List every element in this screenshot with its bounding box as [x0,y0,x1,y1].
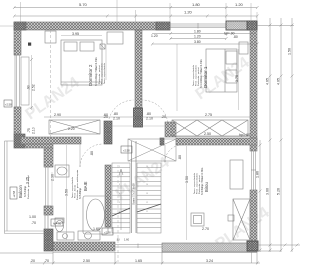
svg-text:16: 16 [146,166,148,168]
svg-text:.80: .80 [178,155,182,160]
svg-text:.70: .70 [44,259,49,263]
stairs arrow [119,169,123,230]
svg-text:Balcon: Balcon [18,185,23,198]
svg-text:+2.58: +2.58 [104,231,111,235]
svg-text:.80: .80 [146,112,151,116]
fixture washer [57,232,74,240]
svg-text:3.50: 3.50 [185,176,189,183]
window bottom (Baie) [115,244,162,249]
stairs stringer [132,141,137,233]
wall balcony step [25,141,53,148]
svg-text:4: 4 [119,193,120,195]
label Dormitor 1 [193,59,208,88]
svg-text:Tavan - vopsea lavabila: Tavan - vopsea lavabila [194,172,196,194]
furniture Birou crossed [228,199,250,240]
wall mid horizontal (Dormitor 2 / Baie) [21,121,112,144]
wall top-right block [226,21,257,30]
furniture D1 wardrobe [172,120,248,136]
svg-text:Tavan - vopsea lavabila: Tavan - vopsea lavabila [72,176,74,198]
window left (Dormitor 2) [14,55,29,107]
svg-text:1.80: 1.80 [194,30,201,34]
svg-text:1.20: 1.20 [151,34,158,38]
dim top row1 [13,6,259,9]
svg-text:Dormitor 1: Dormitor 1 [203,66,208,88]
section line B [117,165,119,262]
svg-text:12: 12 [146,202,148,204]
label Baie [72,169,88,200]
window top (Dormitor 1) [170,23,226,29]
dim D1 room [205,75,239,117]
svg-text:2.50: 2.50 [83,259,90,263]
svg-text:1.20: 1.20 [235,2,244,7]
dim D2 room [54,32,166,121]
stairs landing crossed [128,139,176,161]
svg-text:S=5.40mp: S=5.40mp [24,185,27,197]
svg-text:+2.58: +2.58 [5,103,12,107]
svg-text:5.26: 5.26 [277,188,281,195]
window left lower (Baie) [44,167,53,206]
label level outside [4,100,12,107]
dim right columns [257,18,300,252]
marker square D2 [28,43,31,46]
svg-text:3.24: 3.24 [206,259,213,263]
svg-text:Tavan - vopsea lavabila: Tavan - vopsea lavabila [104,62,106,84]
stairs left flight [112,163,130,233]
stairs right flight [137,163,161,233]
svg-text:3.25: 3.25 [26,177,30,184]
dim chain lines interior [52,36,239,241]
dim ext top [0,0,257,30]
furniture D1 nightstand [239,42,248,54]
door balcony [45,215,48,229]
furniture Birou table [191,213,204,226]
svg-text:1.00: 1.00 [29,215,36,219]
svg-text:S=5.65mp: S=5.65mp [79,187,82,199]
furniture D2 bed [61,40,102,85]
svg-text:S=14.20mp; H/liber=2.70m: S=14.20mp; H/liber=2.70m [95,57,98,86]
svg-text:3.80: 3.80 [194,40,201,44]
svg-text:4.65: 4.65 [266,78,270,85]
svg-text:2: 2 [119,175,120,177]
dim Baie [51,151,101,231]
svg-text:+2.58: +2.58 [123,149,130,153]
wall central (between bedrooms) [134,30,143,127]
label Birou [194,168,209,195]
wall baie right [105,165,111,227]
dim window D1 [151,32,259,46]
dim Birou [178,132,250,231]
label level stairs [121,146,132,153]
svg-text:3: 3 [119,184,120,186]
svg-text:2.10: 2.10 [32,127,36,134]
stairs break line [112,204,161,216]
svg-text:BAIE: BAIE [83,181,88,191]
svg-text:.80: .80 [113,112,118,116]
svg-text:2.50: 2.50 [204,132,211,136]
svg-text:Birou: Birou [204,182,209,192]
label Dormitor 2 [88,57,106,86]
watermark [23,54,273,253]
dim left texts [27,84,36,134]
svg-text:Dormitor 2: Dormitor 2 [88,64,93,86]
svg-text:.80: .80 [233,35,238,39]
label Balcon [18,175,30,199]
label level baie [102,228,113,235]
door Birou (arc) [165,145,182,162]
svg-text:1.50: 1.50 [288,48,292,55]
svg-text:14: 14 [146,184,148,186]
fixture wc [55,218,64,232]
svg-text:5: 5 [119,202,120,204]
svg-text:1.60: 1.60 [124,238,130,242]
svg-text:S=13.60mp; H/liber=2.70m: S=13.60mp; H/liber=2.70m [200,59,203,88]
svg-text:1.65: 1.65 [135,259,142,263]
svg-text:.75: .75 [27,128,31,133]
svg-text:4.05: 4.05 [277,78,281,85]
svg-text:.90: .90 [27,85,31,90]
svg-text:1.20: 1.20 [194,35,201,39]
svg-text:3.60: 3.60 [266,188,270,195]
door Dormitor 2 (arc) [108,100,134,126]
svg-text:6: 6 [119,211,120,213]
svg-text:1.80: 1.80 [192,2,201,7]
door Dormitor 1 (arc) [143,100,169,126]
svg-text:2.52: 2.52 [32,84,36,91]
dim top row2 [13,15,259,18]
door Baie (arc) [80,144,103,167]
wall left upper [14,30,25,148]
svg-text:2.20: 2.20 [68,127,75,131]
svg-text:15: 15 [146,175,148,177]
fixture sink [55,165,69,177]
svg-text:1.60: 1.60 [93,227,100,231]
label level balcon [10,187,17,199]
furniture D2 wardrobe [49,120,100,134]
svg-text:2.90: 2.90 [54,113,61,117]
balcony rail [5,141,45,234]
svg-text:.80: .80 [90,151,94,156]
svg-text:2.70: 2.70 [202,227,209,231]
fixture tub [83,196,108,234]
svg-text:.70: .70 [31,221,36,225]
section line A [50,30,52,137]
svg-text:1.86: 1.86 [256,171,260,178]
fixture counter sink [78,231,100,240]
svg-text:5.70: 5.70 [79,2,88,7]
wall Dormitor1 / Birou [160,138,257,145]
furniture Birou desk [230,160,243,189]
svg-text:11: 11 [146,211,148,213]
svg-text:Tavan - vopsea lavabila: Tavan - vopsea lavabila [193,64,195,86]
svg-text:2.75: 2.75 [205,113,212,117]
window right (Birou) [251,151,256,190]
svg-text:1: 1 [119,166,120,168]
wall stair stub [165,122,176,137]
dim bottom [0,252,260,265]
svg-text:hp=.60: hp=.60 [53,222,62,226]
stair tread numbers [119,166,148,213]
furniture D1 bed [206,49,237,92]
wall left lower [44,148,53,251]
label hp baie [51,219,63,226]
svg-text:+2.58: +2.58 [12,190,16,197]
svg-text:.90: .90 [116,238,120,242]
wall top [14,22,170,30]
dim Balcon [26,177,37,225]
wall bottom [53,241,258,263]
svg-text:1.20: 1.20 [184,10,193,15]
svg-text:13: 13 [146,193,148,195]
svg-text:.20: .20 [30,259,35,263]
wall right [247,30,258,251]
furniture D2 nightstand [45,31,56,43]
svg-text:Scara: 17x17.6x28: Scara: 17x17.6x28 [132,183,136,205]
svg-text:S=9.60mp; H/liber=2.70m: S=9.60mp; H/liber=2.70m [201,168,204,195]
svg-text:2.30: 2.30 [51,174,55,181]
